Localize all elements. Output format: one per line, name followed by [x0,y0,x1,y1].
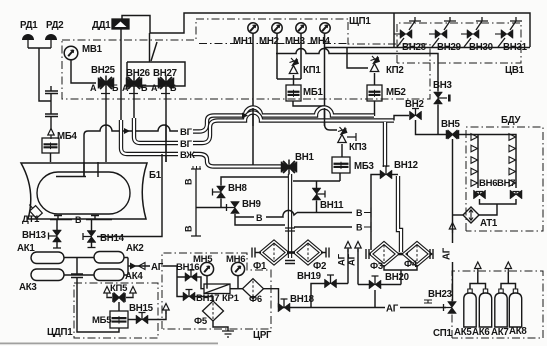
svg-text:ВН13: ВН13 [22,230,47,241]
wire РД1/РД2 manifold down to coupling [28,48,51,101]
svg-text:ВН25: ВН25 [91,65,116,76]
pipe main vertical to Ф1/Ф2 [288,174,292,258]
svg-text:БДУ: БДУ [501,115,521,126]
svg-text:АГ: АГ [386,304,399,315]
wire Ф3/Ф4 bottom manifold [384,265,417,285]
valve ВН2 [410,111,422,120]
wire Ф5 to drain [213,321,228,331]
wire ВН27 stem down [165,91,167,163]
filter Ф6 [243,279,264,299]
stubs Ф3/Ф4 to feed pipe [395,253,408,256]
svg-text:ВН18: ВН18 [290,294,315,305]
svg-text:МН1: МН1 [233,36,254,47]
wire Ф6 to АГ bus [264,289,279,308]
gas cylinder АК7 [495,293,507,327]
relief unit КП5 with vents [104,287,110,298]
valve ВН20 [369,280,381,289]
manometer МН1 [248,23,258,33]
wire crossing patches under pipe hops [252,108,254,126]
gas cylinder АК8 [509,293,521,327]
wire КП5 to МБ5 [118,302,120,311]
svg-text:МН4: МН4 [310,36,331,47]
svg-text:МН5: МН5 [193,254,213,265]
hatch ticks on В cap [193,166,200,169]
wire ВН11 to В stub [316,201,318,213]
svg-text:МБ5: МБ5 [92,315,112,326]
bellows unit МБ4 [42,138,59,153]
wire ВН20 connections [358,285,401,308]
wire ВН17 to Ф5 [195,297,213,302]
svg-text:В: В [75,215,82,225]
valve ВН29 with handle [432,17,456,47]
svg-text:ВН8: ВН8 [228,183,247,194]
svg-text:МБ2: МБ2 [386,87,406,98]
relief valve КП2 [370,64,378,72]
АГ riser right [355,242,361,253]
svg-text:АК2: АК2 [126,243,144,254]
svg-text:МН2: МН2 [259,36,279,47]
valve ВН14 [87,231,96,243]
pipe ВН12 drop to Ф3/Ф4 [383,122,387,167]
wire АГ from accumulators [124,258,174,276]
svg-text:ЦРГ: ЦРГ [253,330,272,341]
svg-text:ВН26: ВН26 [126,68,151,79]
svg-text:В: В [356,208,363,218]
svg-text:МБ1: МБ1 [303,87,324,98]
svg-text:ВН12: ВН12 [394,160,418,171]
flow arrow on pipe [242,113,248,119]
wire gauge header to ВН3 drop [276,49,438,92]
vent arrow above МБ4 [48,129,54,140]
tank Б1 outer shell [21,163,147,219]
panel ЩП1 gauge-box bottom edge (dash-dot) [199,43,348,45]
svg-text:ВГ: ВГ [180,127,193,138]
wire МБ3 to ВН11 [293,173,340,188]
manometer МН5 [200,262,213,275]
wire bus to КП2 [347,48,368,69]
manometer МН2 [272,23,282,33]
wire ВН19 connections [311,284,348,308]
svg-text:ВН17: ВН17 [196,293,219,304]
svg-text:КР1: КР1 [222,293,240,304]
svg-text:СП1: СП1 [433,328,452,339]
filter Ф1 [261,242,287,264]
svg-text:МН3: МН3 [285,36,306,47]
expansion unit МБ2 [367,85,382,101]
stubs Ф1/Ф2 to pipe [287,251,295,254]
svg-text:ВН7: ВН7 [497,178,515,189]
wire pipe to ВН2 [394,116,409,121]
expansion unit МБ1 [286,85,301,101]
svg-text:Ф3: Ф3 [370,261,383,272]
cap right of Ф2 [326,248,329,258]
svg-text:АГ: АГ [442,247,453,260]
wire ВН27 stem patch across pipes [165,124,167,162]
wire КР1 to Ф6 [230,288,243,290]
svg-text:В: В [256,213,263,223]
accumulator АК1 [31,252,64,264]
panel boundary ЩП1 (dash-dot) [62,19,430,99]
cap left of Ф3 [366,249,369,259]
svg-text:КП1: КП1 [303,65,321,76]
valve ВН11 [312,188,321,200]
wire ВН13 stem [56,220,58,232]
svg-text:АГ: АГ [151,262,164,273]
wire drop x394 [393,13,395,47]
cap below Ф1/Ф2 junction [285,261,295,264]
svg-text:ВН14: ВН14 [100,233,125,244]
svg-text:ВН19: ВН19 [297,271,322,282]
wire АТ1 to АГ riser [453,214,464,216]
wire ВН5 to nozzle rails [459,135,516,189]
valve ВН12 [380,170,392,179]
wire ВН16 to reducer line [197,277,204,289]
svg-text:В: В [356,223,363,233]
svg-text:ЩП1: ЩП1 [349,16,371,27]
valve ВН5 [446,130,459,139]
relief valve КП3 [338,135,346,143]
svg-text:АК1: АК1 [17,243,35,254]
manometer МН4 [320,23,330,33]
filter Ф3 [371,243,397,265]
svg-text:ЦДП1: ЦДП1 [47,327,73,338]
valve ВН27 (4-way) [158,78,174,89]
tank Б1 inner capsule [37,172,130,214]
vacuum gauge МВ1 [64,46,78,60]
coupling flanges on РД line [45,86,58,130]
wire drop to ВН26/ВН27 box [149,33,151,62]
АГ main riser to ВН23 [452,139,454,301]
wire ВН2 to ВН5 header [416,120,447,135]
accumulator АК4 [94,269,124,281]
svg-text:МВ1: МВ1 [82,44,103,55]
drain symbol [222,331,234,337]
pipe ВГ lower run [134,118,178,143]
valve ВН8 [217,186,226,198]
wire МН1 down crossing pipes [252,33,254,167]
svg-text:Б: Б [141,83,148,93]
valve ВН26 (4-way) [126,78,142,89]
wire ВН15 to vent [148,311,166,320]
expansion unit МБ5 [110,311,128,328]
gas cylinder АК5 [464,293,476,327]
wire МН3 stem [300,33,302,79]
svg-text:ДТ1: ДТ1 [22,214,40,225]
flange pair on manifold [71,274,83,278]
wire МВ1 to valve ВН25 [71,60,96,83]
wire ВН26 stem down [133,91,135,121]
valve ВН18 [278,303,290,312]
wire ЦВ1 bottom bus [325,47,531,49]
enclosure ЦДП1 (dash-dot) [74,283,158,338]
valve ВН9 [231,202,240,214]
svg-text:А: А [151,83,158,93]
pipe end cap В (upper) [191,169,201,236]
svg-text:ВН20: ВН20 [385,272,409,283]
filter Ф5 [203,301,224,321]
В stub upper [297,212,352,214]
АГ bus [279,307,447,309]
svg-text:Б1: Б1 [149,170,162,181]
wire cylinder vents [470,272,486,289]
manometer МН3 [296,23,306,33]
svg-text:ВГ: ВГ [180,139,193,150]
wire КП1/МБ1 [293,75,324,106]
manometer МН6 [231,262,244,275]
pressure switch РД1 [22,34,34,40]
enclosure БДУ (dash-dot) [466,127,543,231]
svg-text:Б: Б [112,83,119,93]
nozzle rail right [509,134,516,141]
svg-text:МН6: МН6 [226,254,245,265]
В stub lower [294,226,352,228]
filter Ф4 [404,243,430,265]
wire ВН25 stem to tank [105,91,107,163]
pipe ВЖ run to ВН1 [121,120,178,154]
reducer КР1 [204,284,230,294]
valve ВН19 [325,279,337,288]
svg-text:ВН3: ВН3 [433,80,452,91]
wire ДД1 loop to top bus [122,13,530,47]
svg-text:МБ3: МБ3 [354,161,375,172]
cap right of Ф4 [430,249,433,259]
svg-text:ВН6: ВН6 [479,178,497,189]
valve ВН30 with handle [464,17,488,47]
wire ВН6/ВН7 to АТ1 [479,199,516,215]
svg-text:Ф1: Ф1 [253,261,267,272]
tank internal fill tubes [56,162,98,177]
svg-text:ВН2: ВН2 [405,99,424,110]
valve ВН28 with handle [397,17,421,47]
wire КП2/МБ2 [374,73,376,116]
wire ВГ upper run (from tank fill tube) [84,125,178,177]
tank drain line В [50,219,112,221]
svg-text:ВН15: ВН15 [129,303,154,314]
svg-text:ВН9: ВН9 [242,199,261,210]
svg-text:ДД1: ДД1 [92,20,111,31]
valve ВН13 [53,230,62,242]
svg-text:ВН5: ВН5 [441,119,460,130]
enclosure ЦРГ (dash-dot) [162,253,271,329]
svg-text:РД2: РД2 [46,20,63,31]
heat exchanger АТ1 [463,207,479,223]
enclosure ЦВ1 (dash-dot) [397,23,521,63]
svg-text:Ф4: Ф4 [404,259,418,270]
wire АГ to ВН16/ВН17 [174,266,185,297]
svg-text:Ф6: Ф6 [249,294,262,305]
svg-text:В: В [184,225,194,232]
svg-text:КП2: КП2 [386,65,404,76]
wire МН2 down to КП1 [276,33,278,79]
flow arrow on ВГ line [124,128,130,134]
wire manifold loop into ЦДП1 [77,278,119,333]
svg-text:В: В [184,178,194,185]
valve ВН31 with handle [498,17,522,47]
disconnect coupling on АГ line [130,263,137,270]
valve ВН17 [183,292,195,301]
wire ВН14 stem [91,220,93,232]
gas cylinder АК6 [479,293,491,327]
wire ВН12 left port down to Ф3 cap [371,175,380,251]
wire ВН9 branches to В label and pipe [235,214,285,225]
wire МБ4 to tank [50,153,52,162]
svg-text:КП3: КП3 [349,142,367,153]
wire МН4 stem / КП3 riser [325,33,338,130]
wire accumulator manifold [64,258,94,276]
flange pair before ВН23 [424,300,432,303]
relief valve КП1 [289,66,297,74]
enclosure СП1 (dash-dot) [452,271,543,338]
valve ВН23 [448,302,457,314]
wire ВН3 bottom to header [437,105,439,135]
accumulator АК2 [94,252,124,264]
pressure switch РД2 [45,34,57,40]
filter Ф2 [295,242,321,264]
nozzle rail left [471,134,478,141]
svg-text:АК5: АК5 [454,327,472,338]
sensor ДД1 [112,19,129,29]
svg-text:АК3: АК3 [19,282,37,293]
wire ДД1 down to ВЖ pipe [120,29,122,122]
cap left of Ф1 [252,248,255,258]
wire ВН8 to ВН9 header [196,199,227,208]
valve ВН7 [510,190,522,199]
svg-text:АТ1: АТ1 [480,218,498,229]
svg-text:АК6: АК6 [472,327,490,338]
svg-text:ВН23: ВН23 [428,289,453,300]
valve ВН6 [474,190,486,199]
valve ВН15 [128,319,136,321]
svg-text:ВЖ: ВЖ [180,150,195,161]
svg-text:МБ4: МБ4 [57,131,78,142]
svg-text:ВН27: ВН27 [153,68,177,79]
svg-text:ВН1: ВН1 [295,152,314,163]
valve ВН1 (4-way) [281,162,297,173]
svg-text:АК7: АК7 [491,327,509,338]
svg-text:КП5: КП5 [110,283,128,294]
svg-text:РД1: РД1 [20,20,38,31]
valve ВН16 [185,273,197,282]
svg-text:Б: Б [170,83,177,93]
valve ВН3 [434,92,443,104]
svg-text:А: А [90,83,97,93]
valve ВН25 (4-way) [98,78,114,89]
АГ riser left [345,242,351,253]
svg-text:АГ: АГ [347,253,358,266]
wire ВН14 to right riser [92,154,163,247]
temperature sensor ДТ1 [26,202,42,219]
wire ВН8 top branch to main pipe [221,177,288,186]
flange on main vertical pipe [285,228,295,231]
pipe ВГ upper run (right of label) [193,108,374,132]
svg-text:А: А [122,83,129,93]
scan artifact bottom edge [0,343,218,345]
svg-text:АК8: АК8 [509,326,527,337]
svg-text:ВН11: ВН11 [320,200,344,211]
svg-text:Ф5: Ф5 [194,316,208,327]
box around ВН26 ВН27 [127,62,185,86]
expansion unit МБ3 [341,144,343,157]
accumulator АК3 [31,269,64,281]
svg-text:ЦВ1: ЦВ1 [505,65,525,76]
